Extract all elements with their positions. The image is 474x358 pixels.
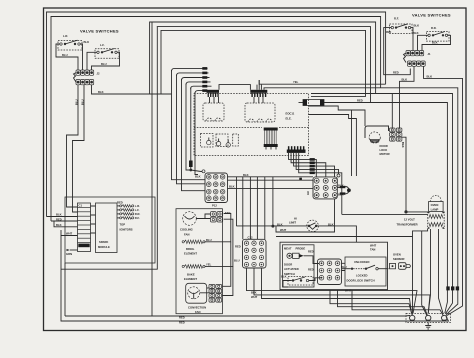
wire L.F. left to J2 [87, 52, 97, 70]
transistor Q3 [226, 140, 230, 148]
svg-text:BLK: BLK [328, 222, 334, 226]
wire door lock switch out [378, 268, 387, 270]
wire P8 right (BLK) to buzzer [337, 187, 341, 189]
spark module U2 box [91, 203, 118, 253]
thermostat HI LIMIT S1 [289, 217, 318, 232]
wire in-box top runs [342, 263, 346, 270]
fuse F1 thermal [299, 100, 325, 106]
wire hi-limit right (BLK) to right bundle [317, 226, 356, 242]
wire R.R. right to J1 (BLK) [422, 35, 451, 50]
svg-text:YEL: YEL [293, 80, 299, 84]
svg-text:COOLING: COOLING [180, 228, 193, 232]
connector J2 [74, 70, 101, 85]
svg-text:C12: C12 [248, 235, 253, 239]
connector P9 comb on EOC top [250, 90, 267, 97]
spark module enclosure box [65, 197, 155, 263]
wire drop to node B [272, 177, 274, 226]
lamp oven lamp DS1 [429, 195, 444, 211]
svg-text:TRANSFORMER: TRANSFORMER [397, 222, 418, 226]
svg-text:WHT: WHT [345, 288, 352, 292]
svg-text:HI: HI [294, 217, 297, 221]
svg-text:BLK: BLK [432, 41, 438, 45]
svg-text:RED: RED [179, 320, 185, 324]
wire C12 down 3 [262, 268, 412, 313]
wire staircase EOC right 2 [309, 115, 357, 177]
svg-text:WHT: WHT [66, 232, 73, 236]
terminal block TB1 [406, 313, 451, 322]
svg-text:FAN: FAN [195, 310, 200, 314]
connector P5 comb on EOC top [207, 90, 220, 97]
svg-text:WHT: WHT [280, 228, 287, 232]
wire convection connector out 2 [223, 266, 233, 295]
switch R.R. valve switch [427, 26, 450, 41]
wire top bus 1 (left side to door lock motor) [47, 12, 386, 217]
wire spark GRN with arrow [66, 249, 78, 256]
svg-text:RED: RED [308, 250, 314, 254]
svg-text:VALVE SWITCHES: VALVE SWITCHES [412, 13, 451, 18]
wire spark input 3 (BLK) [54, 221, 78, 227]
node B junction dot [271, 225, 274, 228]
svg-text:TOP: TOP [120, 223, 126, 227]
wire R.R. left to J1 (BLK) [418, 35, 428, 50]
wire spark input WHT [61, 230, 78, 236]
svg-text:LOCKED: LOCKED [356, 273, 368, 277]
svg-text:UNLOCKED: UNLOCKED [354, 260, 369, 264]
door actuated switch S2 [281, 263, 314, 285]
svg-text:BLK: BLK [277, 222, 283, 226]
meat probe jack J3 [284, 246, 314, 258]
wire DLM connector to x406 down to node C [402, 137, 406, 212]
svg-text:RED: RED [308, 267, 314, 271]
top ignitors group [117, 201, 140, 232]
wire top bus 2 [51, 17, 381, 222]
svg-text:C1: C1 [79, 204, 83, 208]
svg-text:TAN: TAN [225, 211, 230, 215]
svg-text:RED: RED [117, 201, 123, 205]
connector cooling fan [211, 211, 231, 222]
svg-text:P8: P8 [306, 192, 310, 196]
wire comb1 to comb2 link [219, 85, 250, 90]
EOC control dashed enclosure U1 [194, 94, 309, 156]
resistor bake element [182, 263, 212, 281]
svg-text:LAMP: LAMP [431, 207, 439, 211]
relay RY2 (dashed) inside EOC [245, 97, 275, 122]
wire drops to C12 [243, 177, 265, 240]
svg-text:BLU: BLU [75, 99, 79, 105]
wire L.R. left to J2 (BLU) [56, 44, 78, 70]
wire door lock switch bottom feed 3 [352, 290, 444, 316]
switch R.F. valve switch [390, 17, 413, 34]
connector J1 [404, 51, 432, 67]
wire connector to door lock switch [342, 268, 351, 270]
wire labels BK W R above terminals [446, 286, 449, 290]
motor convection fan B2 [186, 283, 207, 314]
svg-text:DOOR LOCK SWITCH: DOOR LOCK SWITCH [347, 279, 375, 283]
relay RY1 (dashed) inside EOC [203, 97, 224, 121]
wire door actuated switch to connector [309, 278, 322, 281]
wire drop to hi-limit left [236, 177, 238, 226]
sensor oven sensor RT1 [390, 252, 411, 269]
wire bake to right bundle [205, 219, 233, 266]
wire broil to right bundle [204, 214, 230, 242]
wire L.F. right to J2 (BLU) [92, 52, 120, 70]
connector convection fan [209, 284, 222, 302]
wire spark input 1 (BLK) [47, 216, 78, 218]
motor door lock M1 [365, 126, 390, 156]
door lock switch box S3 [341, 257, 386, 286]
wire EOC feed v5 through diode to node A [190, 88, 192, 171]
svg-text:MODULE: MODULE [98, 245, 110, 249]
wire J1 pin right down far-right bundle (BLK) [424, 67, 463, 316]
svg-text:BLK: BLK [338, 192, 344, 196]
svg-text:PROBE: PROBE [296, 246, 306, 250]
wire F1 to right bundle (RED) [324, 103, 447, 314]
svg-text:BLK: BLK [56, 223, 62, 227]
wire spark input 2 (RED) [51, 220, 78, 222]
oven door assembly box [280, 242, 388, 289]
wire bus vertical x152 to bottom rail [151, 22, 153, 316]
svg-text:BLK: BLK [243, 173, 249, 177]
transistor Q1 [207, 138, 211, 145]
wire meat probe to connector [304, 256, 320, 264]
wire bundle EOC left feeds (6 nested corners) [172, 67, 213, 94]
svg-text:LIMIT: LIMIT [289, 220, 296, 224]
svg-text:R.F.: R.F. [394, 17, 399, 21]
wire P12 right (BLK y188) [228, 187, 314, 189]
svg-text:RED: RED [56, 217, 62, 221]
svg-text:WHT: WHT [370, 243, 377, 247]
svg-text:OVEN: OVEN [431, 203, 439, 207]
svg-text:BLK: BLK [195, 175, 201, 179]
wire staircase EOC right 1 [309, 106, 366, 176]
wire top bus 5 [161, 30, 366, 96]
svg-text:BLK: BLK [56, 213, 62, 217]
svg-text:SPARK: SPARK [99, 240, 108, 244]
svg-text:FAN: FAN [184, 232, 189, 236]
svg-text:BLK: BLK [414, 24, 420, 28]
transformer T1 12 volt [397, 212, 445, 230]
svg-text:BLK: BLK [281, 275, 287, 279]
resistor broil element [182, 238, 212, 256]
svg-text:BLK: BLK [98, 90, 104, 94]
wire C12 down 2 (WHT) [254, 268, 430, 313]
wire P12 right row2 [228, 179, 314, 181]
connector P8 [306, 174, 340, 199]
wire sensor leads up [412, 229, 427, 315]
svg-text:ELEMENT: ELEMENT [184, 277, 197, 281]
wire R.F. right to J1 (BLK) [411, 28, 413, 51]
buzzer/clip component right of P8 [340, 186, 351, 195]
svg-text:BLK: BLK [401, 142, 405, 148]
wire EOC feed v1 to P12 [172, 70, 206, 180]
svg-text:OVEN: OVEN [393, 252, 401, 256]
wire EOC feed v2 to P12 [177, 75, 206, 184]
dashed partition line in EOC [194, 127, 309, 129]
wire top bus 4 [157, 27, 371, 103]
wire convection connector out 1 [223, 242, 231, 286]
svg-text:L.R.: L.R. [63, 34, 68, 38]
svg-text:LOCK: LOCK [380, 148, 388, 152]
svg-text:P12: P12 [212, 204, 217, 208]
wire P12 right to P8 (y177) [228, 176, 314, 178]
wire bottom rail y316 [65, 263, 410, 316]
wire top bus 3 [150, 22, 376, 94]
svg-text:CONVECTION: CONVECTION [188, 306, 206, 310]
svg-text:SENSOR: SENSOR [393, 257, 405, 261]
svg-text:BLU: BLU [234, 259, 240, 263]
wire EOC feed v4 to junction [186, 84, 190, 171]
dashed component Z2 [216, 134, 228, 147]
svg-text:RED: RED [393, 71, 399, 75]
switch L.R. valve switch [58, 34, 82, 50]
wire J2 col2 down jog to spark area (BLU) [73, 85, 85, 212]
wire bundle P2 to P8 connector [289, 153, 342, 215]
wire L.R. right to J2 (BLK) [80, 44, 82, 70]
wire hi-limit left (BLK) [237, 225, 308, 227]
ignitor L.R. [117, 204, 140, 208]
wire J2 col1 down jog to spark area (BLU) [67, 85, 79, 207]
wire J1 pin down left (BLK) [400, 67, 415, 129]
svg-text:BLK: BLK [84, 40, 90, 44]
svg-text:BLK: BLK [413, 31, 419, 35]
dashed component Z1 [201, 134, 214, 148]
node A junction dot [189, 169, 192, 172]
wire lower run to sensor drop [276, 236, 413, 238]
svg-text:L.F.: L.F. [100, 43, 105, 47]
svg-text:RED: RED [357, 99, 363, 103]
svg-text:ELE.: ELE. [286, 117, 292, 121]
dashed component Z3 [233, 134, 239, 146]
connector P12 [202, 170, 228, 208]
wire comb2 up pins [257, 80, 261, 90]
motor cooling fan B1 [180, 212, 196, 237]
svg-text:VALVE SWITCHES: VALVE SWITCHES [80, 29, 119, 34]
wire under spark box down to bottom rail [61, 236, 449, 322]
svg-text:R.R.: R.R. [135, 212, 141, 216]
wire transformer line from left [342, 213, 428, 215]
wire R.F. left down to J1 pin (RED) [384, 28, 411, 75]
meat probe inner box [283, 245, 315, 287]
wire transformer secondary down to terminals [428, 229, 430, 313]
svg-text:BLK: BLK [229, 185, 235, 189]
wire EOC right to far-right bundle (hC) [311, 94, 453, 314]
svg-text:J2: J2 [97, 72, 101, 76]
svg-text:ELEMENT: ELEMENT [184, 252, 197, 256]
svg-text:DOOR: DOOR [380, 144, 388, 148]
wire J2 col4 down right to EOC bundle (BLK) [92, 85, 172, 94]
transistor Q2 [216, 139, 220, 146]
wire node C to transformer [406, 211, 428, 213]
svg-text:GRN: GRN [66, 252, 72, 256]
svg-text:ACTUATED: ACTUATED [284, 267, 299, 271]
svg-text:RED: RED [386, 30, 392, 34]
svg-text:R.R.: R.R. [431, 26, 437, 30]
connector door lock motor [390, 128, 406, 148]
svg-text:MEAT: MEAT [284, 246, 292, 250]
svg-text:RED: RED [235, 245, 241, 249]
svg-text:YEL: YEL [206, 263, 212, 267]
svg-text:DOOR: DOOR [284, 263, 292, 267]
relay K1 hatched body [264, 128, 278, 150]
connector P2 comb on EOC bottom [287, 146, 306, 153]
connector strip C1 ladder [78, 203, 91, 252]
svg-text:BLK: BLK [427, 74, 433, 78]
ignitor L.F. [117, 208, 140, 212]
wire EOC feed v3 to P12 [182, 79, 206, 191]
wire label tick on P12-P8 run [299, 178, 302, 181]
svg-text:BROIL: BROIL [186, 247, 195, 251]
node C junction dot [404, 210, 407, 213]
connector C12 [234, 235, 266, 268]
svg-text:TAN: TAN [370, 247, 375, 251]
wire door box bottom feed 1 [330, 290, 412, 316]
svg-text:J1: J1 [428, 52, 432, 56]
wire EOC feed v6 to P12 corner [195, 92, 198, 175]
wire door box bottom feed 2 [338, 290, 428, 316]
ignitor R.F. [117, 216, 140, 220]
svg-text:12 VOLT: 12 VOLT [404, 218, 415, 222]
loads enclosure box [176, 209, 222, 314]
ignitor R.R. [117, 212, 140, 216]
svg-text:BLK: BLK [402, 77, 408, 81]
svg-text:L.R.: L.R. [135, 204, 140, 208]
svg-text:WHT: WHT [251, 295, 258, 299]
svg-text:IGNITORS: IGNITORS [120, 227, 133, 231]
wire switch left [283, 281, 292, 288]
svg-text:L.F.: L.F. [135, 208, 140, 212]
connector door lock (in box) [318, 259, 342, 285]
switch L.F. valve switch [95, 43, 119, 58]
svg-text:R.F.: R.F. [135, 216, 140, 220]
diode CR1 on feed v5 [189, 161, 193, 168]
wire fan to connector [196, 214, 210, 219]
svg-text:EOC11: EOC11 [286, 112, 295, 116]
wire comb2 right to far right bundle [264, 88, 458, 315]
wire node A to P12 corner circle [191, 170, 202, 172]
wire DLM connector col1 feed from hC [391, 94, 393, 129]
svg-text:BLU: BLU [62, 53, 68, 57]
svg-text:MOTOR: MOTOR [380, 152, 390, 156]
svg-text:BAKE: BAKE [187, 272, 195, 276]
wire YEL bus comb2 to right side [259, 80, 385, 84]
wire convection fan to connector [200, 288, 209, 293]
wire C12 down 1 (BLK) [247, 268, 418, 313]
wire WHT below hi-limit [276, 199, 335, 232]
svg-text:BLU: BLU [101, 62, 107, 66]
ground symbol [425, 323, 431, 329]
wire bus vertical x157 wrapping spark module [61, 27, 157, 270]
